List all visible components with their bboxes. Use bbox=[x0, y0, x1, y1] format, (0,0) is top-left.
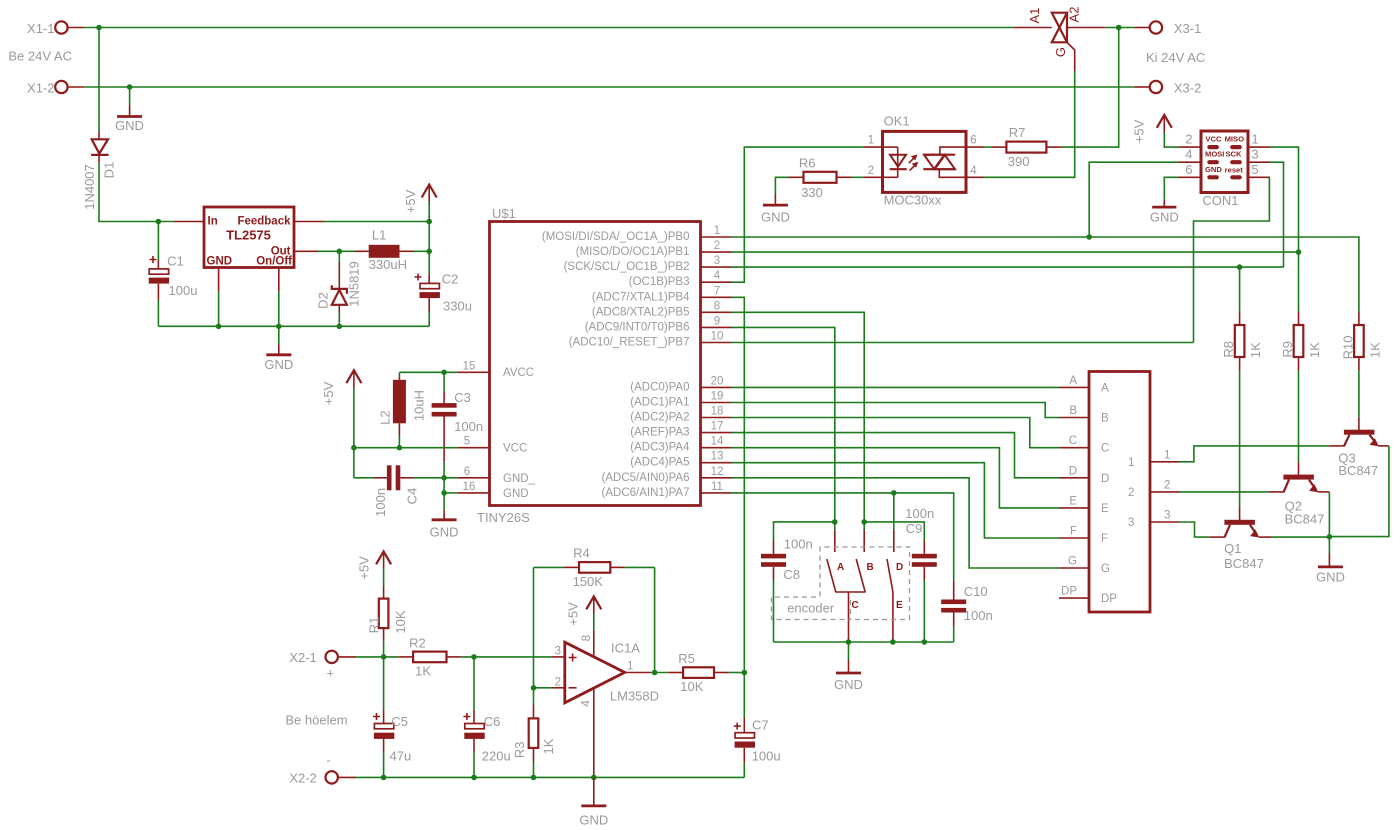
ground GND at CON1 bbox=[1150, 177, 1179, 224]
SEG pin E bbox=[1059, 495, 1089, 508]
svg-text:C8: C8 bbox=[783, 567, 800, 582]
svg-text:100n: 100n bbox=[905, 506, 934, 521]
svg-text:(ADC8/XTAL2)PB5: (ADC8/XTAL2)PB5 bbox=[592, 306, 690, 318]
connector X1-2 bbox=[27, 81, 84, 96]
svg-text:B: B bbox=[1069, 405, 1077, 417]
wire node A to C8 bbox=[774, 522, 835, 541]
ground GND under U$1 bbox=[430, 493, 459, 540]
junction L1/C2 bbox=[426, 249, 432, 255]
pin 11 PA7 bbox=[701, 481, 732, 493]
svg-text:A2: A2 bbox=[1067, 7, 1082, 23]
svg-text:1: 1 bbox=[1164, 449, 1170, 461]
pin 7 PB4 bbox=[701, 285, 732, 297]
svg-text:encoder: encoder bbox=[787, 601, 835, 616]
svg-text:(ADC6/AIN1)PA7: (ADC6/AIN1)PA7 bbox=[602, 487, 690, 499]
junction GND_/C3 bbox=[441, 475, 447, 481]
svg-text:GND: GND bbox=[207, 256, 233, 268]
svg-text:5: 5 bbox=[464, 436, 470, 448]
wire ground rail under TL2575 bbox=[158, 325, 429, 327]
junction encoder A bbox=[832, 519, 838, 525]
svg-text:1K: 1K bbox=[1307, 342, 1322, 358]
svg-text:10K: 10K bbox=[393, 610, 408, 633]
svg-text:Ki 24V AC: Ki 24V AC bbox=[1146, 50, 1205, 65]
wire AVCC net bbox=[399, 371, 458, 373]
svg-text:(ADC3)PA4: (ADC3)PA4 bbox=[630, 442, 690, 454]
svg-text:100u: 100u bbox=[169, 283, 198, 298]
pin 6 GND_ bbox=[458, 466, 490, 478]
pin 19 PA1 bbox=[701, 391, 732, 403]
svg-text:+5V: +5V bbox=[357, 556, 372, 580]
resistor R10 1K bbox=[1341, 312, 1383, 371]
svg-text:3: 3 bbox=[1164, 510, 1170, 522]
wire R6 to GND bbox=[775, 177, 788, 194]
svg-text:100n: 100n bbox=[373, 488, 388, 517]
junction pin16 bbox=[441, 490, 447, 496]
svg-text:2: 2 bbox=[1128, 487, 1134, 499]
wire PB6 to encoder A bbox=[732, 327, 835, 522]
svg-text:GND: GND bbox=[1150, 209, 1179, 224]
wire PA6 to G bbox=[732, 478, 1060, 568]
wire Q2 emitter down bbox=[1328, 492, 1330, 537]
svg-text:100n: 100n bbox=[784, 536, 813, 551]
svg-text:(ADC9/INT0/T0)PB6: (ADC9/INT0/T0)PB6 bbox=[585, 321, 690, 333]
CON1 pin 1 bbox=[1248, 132, 1270, 148]
svg-text:E: E bbox=[1069, 495, 1077, 507]
junction VCC/+5V bbox=[351, 445, 357, 451]
junction X1-1/D1 bbox=[96, 25, 102, 31]
svg-text:1N4007: 1N4007 bbox=[82, 164, 97, 210]
svg-text:R7: R7 bbox=[1009, 125, 1026, 140]
svg-text:6: 6 bbox=[970, 135, 976, 147]
svg-text:+5V: +5V bbox=[321, 381, 336, 405]
svg-text:-: - bbox=[327, 753, 331, 768]
svg-text:9: 9 bbox=[714, 315, 720, 327]
wire SEG pin1 to Q3 base bbox=[1180, 446, 1329, 462]
svg-text:F: F bbox=[1070, 526, 1077, 538]
transistor Q2 BC847 bbox=[1268, 462, 1329, 526]
svg-text:3: 3 bbox=[1251, 147, 1258, 162]
pin 10 PB7 bbox=[701, 331, 732, 343]
CON1 pin 2 bbox=[1179, 132, 1202, 148]
triac T1 bbox=[1014, 7, 1106, 71]
svg-text:G: G bbox=[1101, 563, 1110, 575]
svg-text:1K: 1K bbox=[1248, 342, 1263, 358]
junction rail/C bbox=[846, 639, 852, 645]
SEG pin C bbox=[1059, 435, 1089, 448]
wire net AC2 bottom rail bbox=[84, 86, 1134, 88]
svg-text:C1: C1 bbox=[167, 254, 184, 269]
SEG pin DP bbox=[1059, 586, 1089, 599]
wire encoder ground rail bbox=[774, 641, 954, 643]
ground GND at transistors bbox=[1316, 537, 1345, 585]
opamp minus input stub bbox=[552, 687, 565, 689]
junction R1/X2-1 bbox=[381, 654, 387, 660]
svg-text:DP: DP bbox=[1061, 586, 1077, 598]
svg-text:10: 10 bbox=[711, 331, 724, 343]
svg-text:R10: R10 bbox=[1341, 336, 1356, 360]
wire OK1 pin1 to PB3 bbox=[732, 147, 864, 282]
diode D2 1N5819 bbox=[315, 251, 361, 326]
pin 18 PA2 bbox=[701, 406, 732, 418]
svg-text:TINY26S: TINY26S bbox=[477, 510, 530, 525]
wire TL2575 Out bbox=[294, 250, 355, 252]
svg-text:330u: 330u bbox=[443, 299, 472, 314]
junction PB2/R8 bbox=[1237, 264, 1243, 270]
svg-text:6: 6 bbox=[464, 466, 470, 478]
OK1 pin 4 bbox=[966, 165, 984, 177]
svg-text:C3: C3 bbox=[454, 390, 471, 405]
svg-text:(ADC5/AIN0)PA6: (ADC5/AIN0)PA6 bbox=[602, 472, 690, 484]
svg-text:GND: GND bbox=[264, 357, 293, 372]
svg-text:D: D bbox=[1101, 473, 1109, 485]
power +5V at VCC bbox=[321, 370, 362, 448]
pin 14 PA4 bbox=[701, 436, 732, 448]
svg-text:X1-1: X1-1 bbox=[27, 21, 54, 36]
pin 1 PB0 bbox=[701, 225, 732, 237]
svg-text:LM358D: LM358D bbox=[610, 689, 659, 704]
svg-text:16: 16 bbox=[463, 481, 476, 493]
wire Q1 emitter to GND rail bbox=[1271, 536, 1329, 538]
svg-text:X2-2: X2-2 bbox=[289, 770, 316, 785]
junction encoder B bbox=[861, 519, 867, 525]
wire PA1 to B bbox=[732, 403, 1060, 418]
svg-text:10K: 10K bbox=[680, 679, 703, 694]
IC U$1 box bbox=[477, 206, 701, 525]
svg-text:1N5819: 1N5819 bbox=[347, 261, 362, 307]
svg-text:4: 4 bbox=[714, 270, 721, 282]
svg-text:1: 1 bbox=[1251, 132, 1258, 147]
svg-text:(ADC2)PA2: (ADC2)PA2 bbox=[630, 412, 689, 424]
wire feedback left leg bbox=[533, 567, 535, 687]
svg-text:GND: GND bbox=[761, 210, 790, 225]
wire gate to OK1 pin4 bbox=[984, 71, 1075, 177]
svg-text:GND: GND bbox=[1205, 165, 1222, 174]
svg-text:1K: 1K bbox=[541, 738, 556, 754]
svg-text:7: 7 bbox=[714, 285, 720, 297]
wire reset CON1 pin5 to PB7 bbox=[1194, 177, 1271, 342]
svg-text:B: B bbox=[1101, 413, 1109, 425]
junction AVCC/C3 bbox=[441, 370, 447, 376]
svg-text:C4: C4 bbox=[404, 488, 419, 505]
svg-text:MOSI: MOSI bbox=[1205, 150, 1224, 159]
svg-text:In: In bbox=[208, 216, 218, 228]
wire output node bbox=[651, 672, 669, 674]
junction C6 node bbox=[471, 654, 477, 660]
svg-text:13: 13 bbox=[711, 451, 724, 463]
svg-text:(ADC4)PA5: (ADC4)PA5 bbox=[630, 457, 689, 469]
power +5V at opamp bbox=[565, 596, 601, 630]
svg-text:IC1A: IC1A bbox=[611, 640, 640, 655]
junction rail/C6 bbox=[471, 775, 477, 781]
svg-text:Q1: Q1 bbox=[1224, 541, 1241, 556]
junction PB1/MISO/R9 bbox=[1296, 249, 1302, 255]
wire MISO CON1 pin1 to PB1 bbox=[1270, 147, 1299, 252]
resistor R2 1K bbox=[398, 636, 461, 679]
capacitor C5 47u bbox=[373, 657, 411, 778]
svg-text:D: D bbox=[896, 562, 903, 573]
wire SCK CON1 pin3 to PB2 bbox=[1270, 162, 1284, 267]
svg-text:+5V: +5V bbox=[565, 602, 580, 626]
resistor R3 1K bbox=[512, 688, 556, 778]
SEG pin 1 bbox=[1150, 449, 1180, 462]
ground GND at encoder bbox=[834, 642, 863, 692]
connector X2-1 bbox=[289, 650, 356, 681]
svg-text:X1-2: X1-2 bbox=[27, 81, 54, 96]
wire Q3 emitter down bbox=[1329, 446, 1389, 537]
svg-text:GND_: GND_ bbox=[503, 473, 536, 485]
wire PA7 row to encoder D and C10 bbox=[732, 493, 954, 581]
svg-text:BC847: BC847 bbox=[1224, 556, 1264, 571]
svg-text:1K: 1K bbox=[1367, 342, 1382, 358]
wire X2-1 to R2 bbox=[356, 656, 398, 658]
connector X3-2 bbox=[1134, 81, 1201, 96]
svg-text:2: 2 bbox=[1185, 132, 1192, 147]
svg-text:A: A bbox=[1069, 375, 1077, 387]
resistor R4 150K bbox=[534, 546, 655, 590]
svg-text:MOC30xx: MOC30xx bbox=[884, 193, 942, 208]
svg-text:+: + bbox=[327, 666, 335, 681]
svg-text:47u: 47u bbox=[390, 749, 412, 764]
ground GND under TL2575 bbox=[264, 326, 293, 372]
resistor R1 10K bbox=[366, 586, 408, 657]
svg-text:(MOSI/DI/SDA/_OC1A_)PB0: (MOSI/DI/SDA/_OC1A_)PB0 bbox=[542, 231, 690, 243]
OK1 pin 1 bbox=[863, 135, 882, 147]
SEG pin B bbox=[1059, 405, 1089, 418]
connector X2-2 bbox=[289, 753, 356, 786]
junction R5/C7/PB4 bbox=[742, 670, 748, 676]
wire PA0 to A bbox=[732, 386, 1060, 388]
svg-text:100n: 100n bbox=[964, 608, 993, 623]
connector SEG box bbox=[1089, 372, 1150, 613]
junction Out/D2 bbox=[337, 249, 343, 255]
CON1 pin 6 bbox=[1179, 162, 1202, 178]
pin 20 PA0 bbox=[701, 375, 732, 387]
svg-text:X3-2: X3-2 bbox=[1174, 81, 1201, 96]
SEG pin 2 bbox=[1150, 479, 1180, 492]
svg-text:4: 4 bbox=[970, 165, 977, 177]
opamp plus input stub bbox=[552, 656, 565, 658]
junction rail/GNDpin bbox=[216, 324, 222, 330]
ground GND at R6 bbox=[761, 194, 790, 225]
SEG pin F bbox=[1059, 526, 1089, 539]
SEG pin 3 bbox=[1150, 510, 1180, 523]
OK1 internal triac bbox=[923, 147, 964, 177]
wire PB7 row to reset bbox=[732, 342, 1194, 344]
svg-text:1: 1 bbox=[868, 135, 874, 147]
svg-text:GND: GND bbox=[579, 813, 608, 828]
svg-text:Feedback: Feedback bbox=[237, 216, 291, 228]
svg-text:R2: R2 bbox=[409, 636, 426, 651]
wire minus input node bbox=[534, 687, 553, 689]
wire PA3 to D bbox=[732, 433, 1060, 478]
wire Feedback to +5V node bbox=[294, 221, 429, 223]
svg-text:330uH: 330uH bbox=[369, 257, 407, 272]
wire encoder D drop bbox=[893, 493, 895, 530]
svg-text:(ADC10/_RESET_)PB7: (ADC10/_RESET_)PB7 bbox=[569, 337, 690, 349]
svg-text:R3: R3 bbox=[512, 741, 527, 758]
svg-text:D1: D1 bbox=[101, 162, 116, 179]
junction X1-2/GND bbox=[127, 84, 133, 90]
svg-text:(ADC0)PA0: (ADC0)PA0 bbox=[630, 381, 689, 393]
wire R5 to C7 node bbox=[729, 672, 745, 674]
wire PB2 row bbox=[732, 266, 1284, 268]
wire X1-1 to D1 bbox=[98, 28, 100, 132]
pin 13 PA5 bbox=[701, 451, 732, 463]
svg-text:X2-1: X2-1 bbox=[289, 650, 316, 665]
svg-text:GND: GND bbox=[834, 677, 863, 692]
pin 3 PB2 bbox=[701, 255, 732, 267]
svg-text:4: 4 bbox=[580, 700, 592, 707]
power +5V at CON1 bbox=[1131, 115, 1178, 147]
junction rail/E bbox=[890, 639, 896, 645]
svg-text:2: 2 bbox=[714, 240, 720, 252]
svg-text:330: 330 bbox=[801, 185, 823, 200]
wire MOSI CON1 pin4 to PB0 bbox=[1089, 162, 1178, 237]
opamp output stub bbox=[625, 672, 651, 674]
svg-text:On/Off: On/Off bbox=[256, 256, 292, 268]
pin 4 PB3 bbox=[701, 270, 732, 282]
svg-text:2: 2 bbox=[1164, 479, 1170, 491]
connector CON1 bbox=[1201, 131, 1248, 208]
inductor L2 10uH bbox=[378, 372, 427, 447]
svg-text:C2: C2 bbox=[442, 271, 459, 286]
SEG pin G bbox=[1059, 556, 1089, 569]
pin 17 PA3 bbox=[701, 421, 732, 433]
SEG pin D bbox=[1059, 465, 1089, 478]
svg-text:AVCC: AVCC bbox=[503, 367, 534, 379]
svg-text:VCC: VCC bbox=[503, 443, 527, 455]
svg-text:+5V: +5V bbox=[1131, 119, 1146, 143]
power +5V above C2 bbox=[403, 185, 437, 222]
junction rail/R3 bbox=[531, 775, 537, 781]
wire A2 node down to R7 bbox=[1061, 28, 1118, 148]
svg-text:3: 3 bbox=[1128, 517, 1134, 529]
pin 5 VCC bbox=[458, 436, 490, 448]
wire R9 to Q2 collector bbox=[1298, 370, 1300, 462]
svg-text:A: A bbox=[1101, 382, 1109, 394]
svg-text:(MISO/DO/OC1A)PB1: (MISO/DO/OC1A)PB1 bbox=[576, 246, 690, 258]
resistor R6 330 bbox=[789, 155, 864, 200]
wire GND_ to GND row bbox=[443, 478, 445, 493]
svg-text:14: 14 bbox=[711, 436, 724, 448]
svg-text:6: 6 bbox=[1185, 162, 1192, 177]
wire VCC row bbox=[354, 447, 458, 449]
capacitor C2 330u bbox=[415, 222, 472, 327]
wire node B to C9 bbox=[864, 522, 924, 541]
junction VCC/L2 bbox=[397, 445, 403, 451]
svg-text:12: 12 bbox=[711, 466, 724, 478]
svg-text:BC847: BC847 bbox=[1285, 511, 1325, 526]
U$1 right pin labels bbox=[503, 231, 690, 500]
OK1 pin 2 bbox=[863, 165, 882, 177]
wire A2 to X3-1 bbox=[1105, 27, 1134, 29]
svg-text:R4: R4 bbox=[573, 546, 590, 561]
resistor R5 10K bbox=[668, 651, 729, 694]
svg-text:100n: 100n bbox=[454, 419, 483, 434]
junction rail/opamp pin4 bbox=[591, 775, 597, 781]
capacitor C4 100n bbox=[354, 448, 458, 517]
wire PA2 to C bbox=[732, 418, 1060, 448]
svg-text:5: 5 bbox=[1251, 162, 1258, 177]
junction emitter rail bbox=[1327, 534, 1333, 540]
svg-text:17: 17 bbox=[711, 421, 724, 433]
junction feedback/+5V bbox=[426, 219, 432, 225]
svg-text:20: 20 bbox=[711, 375, 724, 387]
capacitor C6 220u bbox=[463, 657, 510, 778]
connector X1-1 bbox=[27, 21, 84, 36]
svg-text:F: F bbox=[1101, 533, 1108, 545]
svg-text:3: 3 bbox=[555, 645, 561, 657]
transistor Q3 BC847 bbox=[1329, 417, 1389, 478]
svg-text:(AREF)PA3: (AREF)PA3 bbox=[630, 427, 689, 439]
svg-text:C9: C9 bbox=[906, 521, 923, 536]
svg-text:E: E bbox=[896, 600, 903, 611]
svg-text:E: E bbox=[1101, 503, 1109, 515]
svg-text:4: 4 bbox=[1185, 147, 1192, 162]
CON1 pin 3 bbox=[1248, 147, 1270, 163]
svg-text:(SCK/SCL/_OC1B_)PB2: (SCK/SCL/_OC1B_)PB2 bbox=[564, 261, 690, 273]
wire TL2575 GND pin down bbox=[218, 268, 220, 327]
junction rail/OnOff bbox=[276, 324, 282, 330]
capacitor C3 100n bbox=[432, 372, 484, 478]
svg-text:8: 8 bbox=[581, 635, 593, 641]
wire X2-2 ground rail bbox=[356, 776, 744, 778]
capacitor C8 100n bbox=[761, 536, 813, 642]
CON1 pin 5 bbox=[1248, 162, 1270, 178]
op-amp IC1A LM358D bbox=[555, 630, 659, 777]
svg-text:3: 3 bbox=[714, 255, 720, 267]
resistor R8 1K bbox=[1221, 267, 1263, 370]
svg-text:CON1: CON1 bbox=[1202, 193, 1238, 208]
capacitor C1 100u bbox=[149, 222, 198, 327]
pin 16 GND bbox=[458, 481, 490, 493]
svg-text:2: 2 bbox=[555, 676, 561, 688]
svg-text:Be 24V AC: Be 24V AC bbox=[8, 48, 72, 63]
pin 9 PB6 bbox=[701, 315, 732, 327]
junction PB0/MOSI bbox=[1086, 234, 1092, 240]
capacitor C7 100u bbox=[734, 673, 781, 778]
svg-text:+5V: +5V bbox=[403, 189, 418, 213]
svg-text:1: 1 bbox=[1128, 457, 1134, 469]
svg-text:C7: C7 bbox=[752, 718, 769, 733]
junction rail/C9 bbox=[922, 639, 928, 645]
svg-text:C6: C6 bbox=[484, 714, 501, 729]
junction rail/D2 bbox=[337, 324, 343, 330]
junction rail/C5 bbox=[381, 775, 387, 781]
svg-text:C5: C5 bbox=[391, 714, 408, 729]
svg-text:B: B bbox=[867, 562, 874, 573]
power +5V at R1 bbox=[357, 551, 392, 585]
inductor L1 330uH bbox=[355, 228, 430, 272]
resistor R7 390 bbox=[984, 125, 1061, 169]
wire PA5 to F bbox=[732, 463, 1060, 538]
svg-text:1K: 1K bbox=[415, 664, 431, 679]
svg-text:DP: DP bbox=[1101, 593, 1117, 605]
svg-text:18: 18 bbox=[711, 406, 724, 418]
pin 15 AVCC bbox=[458, 360, 490, 372]
svg-text:R8: R8 bbox=[1221, 341, 1236, 358]
svg-text:U$1: U$1 bbox=[492, 206, 516, 221]
svg-text:X3-1: X3-1 bbox=[1174, 21, 1201, 36]
wire PB0 row bbox=[732, 237, 1359, 312]
svg-text:G: G bbox=[1068, 556, 1077, 568]
svg-text:C: C bbox=[852, 600, 859, 611]
optocoupler OK1 MOC30xx bbox=[883, 114, 967, 208]
OK1 internal LED bbox=[884, 147, 918, 177]
svg-text:GND: GND bbox=[115, 118, 144, 133]
svg-text:10uH: 10uH bbox=[411, 390, 426, 421]
svg-text:15: 15 bbox=[463, 360, 476, 372]
